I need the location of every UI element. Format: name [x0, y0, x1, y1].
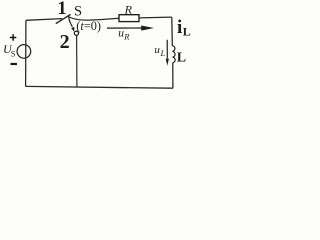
resistor R box [119, 15, 139, 22]
svg-text:S: S [74, 4, 82, 20]
svg-text:u: u [118, 27, 124, 39]
svg-text:i: i [177, 17, 182, 38]
u_L reference arrow (down) [166, 40, 168, 59]
svg-text:L: L [177, 50, 186, 65]
voltage source U_S circle [17, 45, 31, 59]
svg-text:1: 1 [57, 0, 66, 19]
inductor L coil [172, 46, 175, 63]
svg-text:u: u [154, 44, 160, 56]
wire: resistor to top-right corner [139, 16, 172, 19]
svg-text:S: S [11, 49, 16, 59]
switch throw arrow (curved, to contact 2) [69, 16, 73, 27]
minus polarity mark [11, 63, 18, 65]
wire: bottom horizontal [26, 86, 173, 88]
switch contact 2 circle [74, 31, 78, 35]
wire: middle vertical from contact 2 down to bottom wire [76, 35, 78, 87]
switch blade [56, 14, 71, 23]
svg-text:R: R [124, 3, 133, 17]
wire: right vertical lower segment [172, 63, 174, 88]
svg-text:2: 2 [60, 31, 70, 53]
plus polarity mark [10, 34, 16, 40]
wire: left vertical from top-left corner through source to bottom-left corner [25, 20, 27, 86]
svg-text:L: L [160, 48, 166, 58]
u_R reference arrow (right) [107, 27, 142, 29]
svg-text:L: L [183, 25, 191, 39]
wire: switch pivot to resistor [69, 17, 119, 20]
wire: right vertical upper segment [171, 17, 174, 46]
svg-text:R: R [123, 32, 130, 42]
wire: top-left horizontal to switch contact 1 [26, 19, 62, 21]
svg-text:(t=0): (t=0) [76, 19, 101, 33]
